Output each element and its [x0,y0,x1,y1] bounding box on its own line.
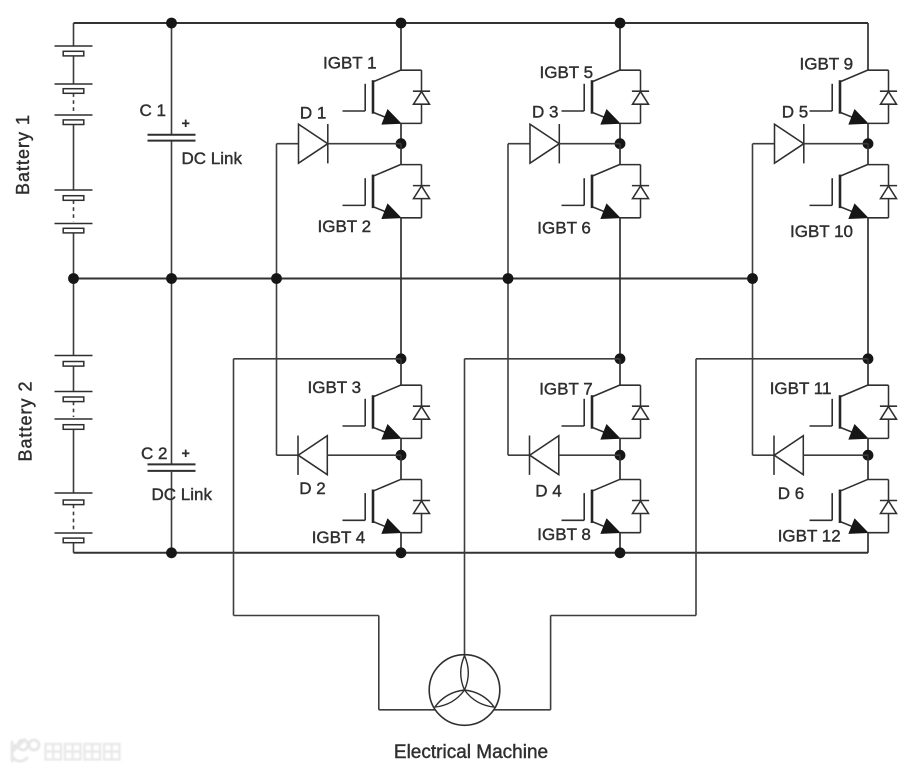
C1 polarity + mark [182,122,189,124]
junction top bus / phase 1 [396,18,407,29]
top DC+ bus wire [74,22,869,24]
transistor IGBT 10 (IGBT with freewheel diode) [867,144,869,165]
wire machine phase B (from phase leg 2 node) [465,358,621,360]
junction node phase 2 lower midpoint [615,450,626,461]
transistor IGBT 8 (IGBT with freewheel diode) [619,455,621,479]
transistor IGBT 7 (IGBT with freewheel diode) [619,359,621,385]
diode D 6 (cathode to mid-rail column, anode to phase node) [753,454,775,456]
junction bottom bus / phase 2 [615,547,626,558]
junction node phase 1 lower-leg top [396,353,407,364]
wire phase leg 3 collector drop from top bus [867,23,869,70]
junction node phase 2 lower-leg top [615,353,626,364]
svg-text:IGBT 11: IGBT 11 [770,379,832,398]
svg-text:D 5: D 5 [782,102,808,121]
svg-text:Battery 2: Battery 2 [16,380,36,461]
watermark logo [12,739,39,762]
wire machine phase C (from phase leg 3 node) [696,358,868,360]
wire diode column 1 vertical (D1 to D2 through mid bus) [276,144,278,456]
junction mid bus / battery [68,273,79,284]
svg-text:Battery 1: Battery 1 [13,114,33,195]
svg-text:C 1: C 1 [140,101,166,120]
wire phase leg 1 collector drop from top bus [400,23,402,70]
junction mid bus / diode column 3 [747,273,758,284]
wire diode column 3 vertical (D5 to D6 through mid bus) [752,144,754,456]
junction bottom bus / phase 1 [396,547,407,558]
junction mid bus / diode column 2 [503,273,514,284]
junction node phase 1 lower midpoint [396,450,407,461]
svg-text:IGBT 2: IGBT 2 [318,217,372,236]
diode D 5 (anode to mid-rail column, cathode to phase node) [753,143,775,145]
capacitor C1 [171,23,173,134]
transistor IGBT 11 (IGBT with freewheel diode) [867,359,869,385]
junction bottom bus / C2 [166,547,177,558]
motor M (electrical machine) [429,655,500,726]
svg-text:Electrical Machine: Electrical Machine [394,742,548,763]
capacitor C2 [171,279,173,464]
middle bus wire (battery midpoint rail) [74,278,753,280]
transistor IGBT 6 (IGBT with freewheel diode) [619,144,621,165]
diode D 1 (anode to mid-rail column, cathode to phase node) [277,143,299,145]
svg-text:D 2: D 2 [299,479,325,498]
transistor IGBT 2 (IGBT with freewheel diode) [400,144,402,165]
junction mid bus / diode column 1 [271,273,282,284]
svg-text:D 1: D 1 [300,103,326,122]
watermark text [46,744,62,760]
transistor IGBT 5 (IGBT with freewheel diode) [593,70,620,82]
svg-text:D 3: D 3 [532,102,558,121]
svg-text:IGBT 5: IGBT 5 [540,63,594,82]
diode D 4 (cathode to mid-rail column, anode to phase node) [508,454,530,456]
svg-text:IGBT 7: IGBT 7 [539,380,593,399]
junction node phase 3 upper midpoint [863,138,874,149]
wire diode column 2 vertical (D3 to D4 through mid bus) [507,144,509,456]
svg-text:IGBT 10: IGBT 10 [790,222,853,241]
wire machine phase A (from phase leg 1 node) [234,358,402,360]
junction top bus / C1 [166,18,177,29]
svg-text:IGBT 3: IGBT 3 [308,378,362,397]
battery Battery 1 [73,23,75,46]
transistor IGBT 1 (IGBT with freewheel diode) [374,70,401,82]
junction node phase 3 lower-leg top [863,353,874,364]
junction top bus / phase 2 [615,18,626,29]
C2 polarity + mark [182,452,189,454]
junction node phase 3 lower midpoint [863,450,874,461]
diode D 3 (anode to mid-rail column, cathode to phase node) [508,143,530,145]
transistor IGBT 4 (IGBT with freewheel diode) [400,455,402,479]
transistor IGBT 3 (IGBT with freewheel diode) [400,359,402,385]
svg-text:IGBT 6: IGBT 6 [537,219,591,238]
svg-text:D 6: D 6 [778,484,804,503]
svg-text:DC Link: DC Link [152,485,213,504]
transistor IGBT 9 (IGBT with freewheel diode) [841,70,868,82]
bottom DC- bus wire [74,552,869,554]
svg-text:IGBT 12: IGBT 12 [778,527,841,546]
diode D 2 (cathode to mid-rail column, anode to phase node) [277,454,299,456]
svg-text:C 2: C 2 [141,444,167,463]
transistor IGBT 12 (IGBT with freewheel diode) [867,455,869,479]
junction node phase 2 upper midpoint [615,138,626,149]
junction node phase 1 upper midpoint [396,138,407,149]
svg-text:IGBT 9: IGBT 9 [800,55,854,74]
battery Battery 2 [73,279,75,356]
svg-text:IGBT 8: IGBT 8 [537,525,591,544]
wire phase leg 2 collector drop from top bus [619,23,621,70]
junction mid bus / C1-C2 [166,273,177,284]
svg-text:IGBT 1: IGBT 1 [323,53,377,72]
svg-text:IGBT 4: IGBT 4 [312,528,366,547]
svg-text:D 4: D 4 [535,482,561,501]
svg-text:DC Link: DC Link [182,149,243,168]
